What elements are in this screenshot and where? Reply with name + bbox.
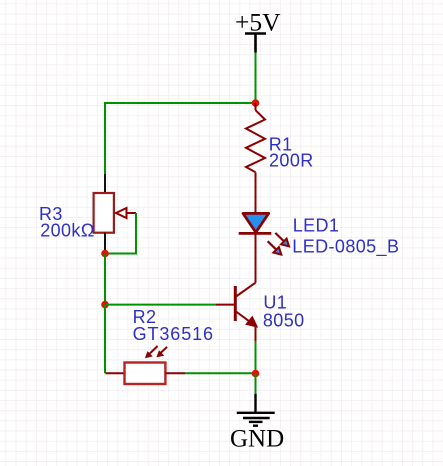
potentiometer R3 wiper pin bbox=[127, 212, 137, 214]
svg-text:LED-0805_B: LED-0805_B bbox=[292, 236, 399, 257]
wire: left vertical down to R3 bbox=[104, 102, 106, 174]
resistor R1 bbox=[246, 103, 265, 213]
potentiometer R3 body bbox=[94, 193, 114, 233]
node C junction bbox=[101, 301, 109, 309]
svg-text:LED1: LED1 bbox=[293, 215, 340, 235]
LED1 light arrow 2 bbox=[268, 241, 282, 254]
photoresistor R2 light arrow 2 bbox=[156, 347, 167, 358]
photoresistor R2 body bbox=[125, 363, 166, 385]
svg-text:GT36516: GT36516 bbox=[133, 324, 214, 344]
wire: R2 to node D bbox=[185, 372, 256, 374]
wire: emitter to node D bbox=[255, 341, 257, 373]
wire: top rail node A to left bbox=[105, 102, 256, 104]
photoresistor R2 right pin bbox=[165, 372, 185, 374]
power +5V symbol bbox=[245, 34, 266, 53]
svg-text:U1: U1 bbox=[263, 293, 287, 313]
LED1 triangle bbox=[243, 213, 269, 232]
transistor U1 emitter arrowhead bbox=[246, 317, 257, 328]
node A junction bbox=[252, 99, 260, 107]
svg-text:200R: 200R bbox=[269, 151, 314, 171]
potentiometer R3 wiper arrow bbox=[116, 208, 127, 218]
node B junction bbox=[101, 250, 109, 258]
node D junction bbox=[252, 370, 260, 378]
LED1 cathode bar bbox=[239, 232, 272, 235]
svg-text:GND: GND bbox=[230, 426, 284, 453]
LED1 light arrow 1 bbox=[275, 233, 289, 246]
transistor U1 base pin bbox=[216, 304, 235, 306]
transistor U1 emitter wire bbox=[255, 325, 257, 341]
ground symbol bbox=[237, 394, 275, 426]
potentiometer R3 bottom pin bbox=[104, 233, 106, 254]
photoresistor R2 light arrow 1 bbox=[145, 346, 158, 358]
transistor U1 collector bbox=[235, 283, 255, 297]
wire: base wire node C to U1 bbox=[105, 304, 216, 306]
potentiometer R3 top pin bbox=[104, 174, 106, 193]
transistor U1 emitter bbox=[235, 311, 251, 323]
photoresistor R2 left pin bbox=[106, 372, 125, 374]
wire: +5V to node A bbox=[255, 53, 257, 104]
svg-text:8050: 8050 bbox=[263, 311, 305, 331]
wire: node B down to node C bbox=[104, 254, 106, 305]
wire: wiper loop bbox=[107, 213, 136, 254]
svg-text:200kΩ: 200kΩ bbox=[40, 221, 94, 241]
transistor U1 base bar bbox=[234, 286, 237, 321]
wire: node C down to bottom rail bbox=[104, 305, 106, 374]
svg-text:+5V: +5V bbox=[235, 8, 281, 37]
LED1 wire through bbox=[255, 213, 257, 283]
wire: node D to GND bbox=[255, 374, 257, 394]
